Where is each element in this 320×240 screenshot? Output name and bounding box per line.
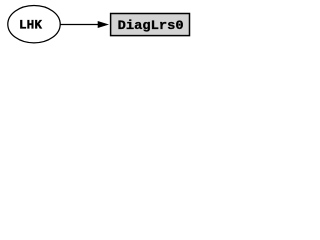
arrowhead (98, 21, 108, 27)
svg-text:DiagLrs0: DiagLrs0 (118, 18, 184, 33)
background (0, 0, 192, 48)
node DiagLrs0 (box) (111, 14, 190, 36)
node LHK (ellipse) (8, 6, 60, 43)
svg-text:LHK: LHK (19, 19, 42, 33)
wire edge LHK to DiagLrs0 (61, 24, 100, 26)
